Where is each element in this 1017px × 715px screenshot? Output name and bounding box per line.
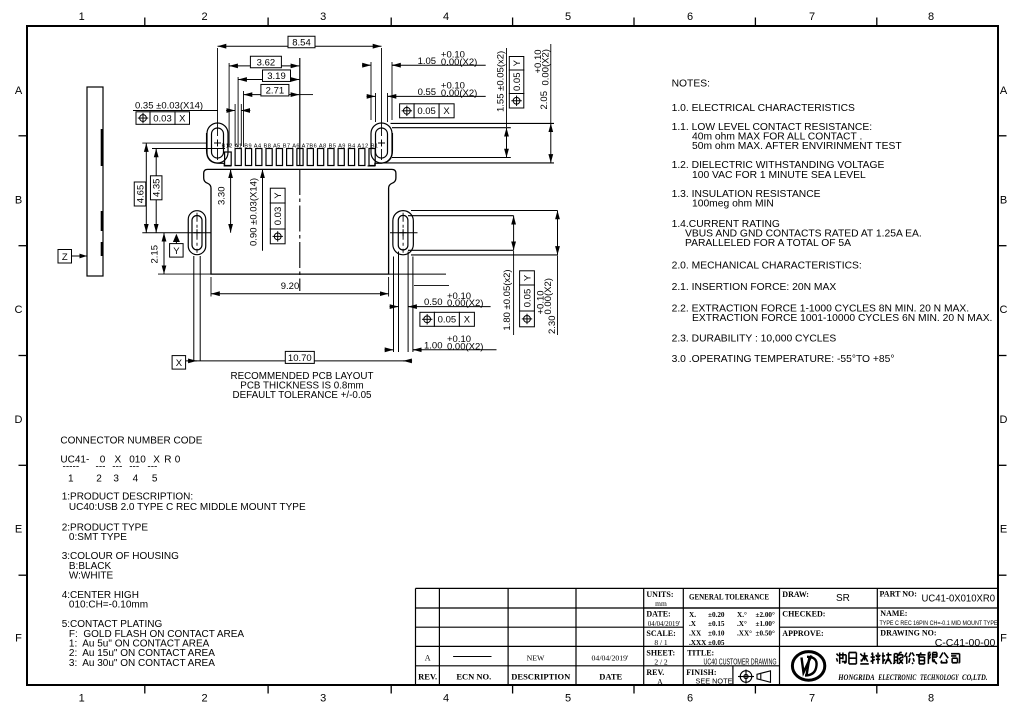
- dim 1.05: [362, 64, 371, 66]
- revision table header: [418, 672, 622, 682]
- top-right oval land contour: [368, 133, 393, 166]
- third angle projection symbol: [738, 670, 771, 684]
- svg-text:0.00(X2): 0.00(X2): [447, 298, 483, 309]
- FCF position 0.05 Y (vertical): [509, 57, 524, 71]
- svg-text:D: D: [1000, 414, 1008, 426]
- svg-text:3: Au 30u" ON CONTACT AREA: 3: Au 30u" ON CONTACT AREA: [69, 658, 215, 669]
- svg-text:0.00(X2): 0.00(X2): [441, 88, 477, 99]
- svg-text:3.62: 3.62: [257, 57, 276, 68]
- top-left oval land contour: [207, 133, 232, 166]
- svg-text:0: 0: [175, 455, 181, 466]
- svg-text:Y: Y: [522, 274, 533, 281]
- svg-text:4: 4: [443, 11, 449, 23]
- svg-text:6: 6: [687, 11, 693, 23]
- svg-text:1: 1: [79, 11, 85, 23]
- svg-text:2.05: 2.05: [539, 91, 550, 110]
- svg-text:2 / 2: 2 / 2: [654, 657, 668, 666]
- title block grid: [416, 588, 999, 685]
- svg-text:---: ---: [112, 462, 122, 473]
- svg-text:B: B: [15, 195, 22, 207]
- svg-text:7: 7: [809, 11, 815, 23]
- svg-text:0.03: 0.03: [273, 207, 284, 226]
- svg-text:-----: -----: [63, 462, 80, 473]
- svg-text:---: ---: [147, 462, 157, 473]
- dim 10.70: [186, 360, 412, 362]
- svg-text:X.: X.: [689, 611, 696, 619]
- svg-text:0.50: 0.50: [424, 297, 443, 308]
- top-right oval slot: [371, 123, 392, 163]
- svg-text:1: 1: [68, 474, 74, 485]
- svg-text:2.1. INSERTION FORCE: 20N MAX: 2.1. INSERTION FORCE: 20N MAX: [672, 282, 837, 293]
- connector body outline: [204, 169, 396, 274]
- svg-text:---: ---: [129, 462, 139, 473]
- svg-text:4.35: 4.35: [152, 179, 163, 198]
- svg-text:0.05: 0.05: [522, 289, 533, 308]
- svg-text:1.00: 1.00: [424, 340, 443, 351]
- mid-right slot extension column: [393, 257, 395, 353]
- svg-text:F: F: [1000, 633, 1007, 645]
- svg-text:0.00(X2): 0.00(X2): [447, 341, 483, 352]
- dim 4.65: [145, 143, 147, 233]
- svg-text:APPROVE:: APPROVE:: [782, 629, 823, 638]
- svg-text:CHECKED:: CHECKED:: [782, 610, 825, 619]
- svg-text:7: 7: [809, 693, 815, 705]
- svg-text:EXTRACTION FORCE 1001-10000 CY: EXTRACTION FORCE 1001-10000 CYCLES 6N MI…: [692, 313, 992, 324]
- svg-text:X: X: [464, 315, 471, 326]
- svg-text:UC40 CUSTOMER DRAWING: UC40 CUSTOMER DRAWING: [704, 658, 777, 667]
- svg-text:X.°: X.°: [737, 611, 747, 619]
- svg-text:2.15: 2.15: [150, 245, 161, 264]
- svg-text:±0.20: ±0.20: [708, 611, 725, 619]
- svg-text:PARALLELED FOR A TOTAL OF 5A: PARALLELED FOR A TOTAL OF 5A: [685, 238, 851, 249]
- svg-text:B: B: [1000, 195, 1007, 207]
- svg-text:Z: Z: [62, 252, 68, 263]
- svg-text:8 / 1: 8 / 1: [654, 638, 668, 647]
- svg-text:100meg ohm MIN: 100meg ohm MIN: [692, 199, 774, 210]
- svg-text:TITLE:: TITLE:: [687, 649, 714, 658]
- FCF position 0.03 X: [136, 112, 150, 125]
- svg-text:50m ohm MAX. AFTER ENVIRINMENT: 50m ohm MAX. AFTER ENVIRINMENT TEST: [692, 141, 902, 152]
- dim 1.55: [506, 128, 508, 158]
- svg-text:0.00(X2): 0.00(X2): [543, 278, 554, 314]
- dim 8.54 extension lines: [217, 48, 219, 136]
- svg-text:2: 2: [96, 474, 102, 485]
- svg-text:1:PRODUCT DESCRIPTION:: 1:PRODUCT DESCRIPTION:: [62, 492, 194, 503]
- svg-text:---: ---: [96, 462, 106, 473]
- svg-text:.XX°: .XX°: [737, 630, 752, 638]
- vertical centerline: [299, 58, 301, 166]
- dim 2.71: [244, 94, 300, 96]
- svg-text:DATE: DATE: [599, 672, 622, 682]
- svg-text:PART NO:: PART NO:: [880, 590, 917, 599]
- svg-text:C: C: [15, 304, 23, 316]
- svg-text:SR: SR: [836, 593, 850, 604]
- dim 0.90 (X14) leader: [262, 169, 264, 251]
- svg-text:UC41-0X010XR0: UC41-0X010XR0: [922, 594, 996, 605]
- svg-text:3.0 .OPERATING TEMPERATURE: -5: 3.0 .OPERATING TEMPERATURE: -55°TO +85°: [672, 354, 895, 365]
- svg-text:DRAWING NO:: DRAWING NO:: [880, 629, 936, 638]
- svg-text:Y: Y: [512, 59, 523, 66]
- dim 3.62: [229, 65, 299, 67]
- dim 2.30: [557, 211, 559, 255]
- svg-text:5: 5: [565, 11, 571, 23]
- svg-text:0.03: 0.03: [153, 113, 172, 124]
- svg-text:.XXX: .XXX: [689, 639, 707, 647]
- svg-text:mm: mm: [655, 599, 667, 608]
- datum Z leader: [72, 255, 88, 257]
- svg-text:C: C: [1000, 304, 1008, 316]
- mid-left oval centerline (datum Y line): [142, 232, 211, 234]
- svg-text:UC40:USB 2.0 TYPE C REC MIDDLE: UC40:USB 2.0 TYPE C REC MIDDLE MOUNT TYP…: [69, 502, 306, 513]
- datum X box: [172, 356, 186, 370]
- svg-text:±2.00°: ±2.00°: [756, 611, 776, 619]
- FCF position 0.05 X (top right): [400, 104, 415, 118]
- svg-text:0.35 ±0.03(X14): 0.35 ±0.03(X14): [135, 101, 203, 112]
- svg-text:9.20: 9.20: [281, 281, 300, 292]
- dim 2.15: [163, 233, 165, 274]
- svg-text:3.19: 3.19: [267, 71, 286, 82]
- svg-text:E: E: [15, 524, 22, 536]
- FCF position 0.03 Y (vertical): [270, 188, 285, 203]
- dim 1.05 extension lines: [370, 62, 372, 120]
- svg-text:UNITS:: UNITS:: [646, 590, 673, 599]
- svg-text:04/04/2019': 04/04/2019': [592, 654, 630, 663]
- svg-text:2: 2: [201, 11, 207, 23]
- svg-text:REV.: REV.: [418, 672, 437, 682]
- connector number code block: [60, 436, 306, 669]
- svg-text:3.30: 3.30: [217, 187, 228, 206]
- datum Z box: [58, 250, 72, 264]
- svg-text:NAME:: NAME:: [880, 609, 907, 618]
- svg-text:SCALE:: SCALE:: [646, 629, 675, 638]
- dim 3.19 extension line: [237, 77, 239, 147]
- svg-text:TYPE C REC 16PIN CH=-0.1 MID M: TYPE C REC 16PIN CH=-0.1 MID MOUNT TYPE: [880, 620, 998, 627]
- svg-text:±0.10: ±0.10: [708, 630, 725, 638]
- svg-text:3: 3: [320, 693, 326, 705]
- svg-text:±0.50°: ±0.50°: [756, 630, 776, 638]
- svg-text:ECN NO.: ECN NO.: [456, 672, 491, 682]
- svg-text:0.55: 0.55: [418, 87, 437, 98]
- svg-text:10.70: 10.70: [288, 353, 312, 364]
- svg-text:8.54: 8.54: [292, 37, 311, 48]
- FCF position 0.05 X (bottom right): [420, 312, 435, 326]
- svg-text:1.05: 1.05: [418, 56, 437, 67]
- svg-text:C-C41-00-00: C-C41-00-00: [935, 637, 996, 649]
- svg-text:A: A: [657, 677, 663, 686]
- svg-text:HONGRIDAELECTRONICTECHNOLOGYCO: HONGRIDAELECTRONICTECHNOLOGYCO,LTD.: [837, 673, 987, 682]
- svg-text:DEFAULT TOLERANCE +/-0.05: DEFAULT TOLERANCE +/-0.05: [233, 390, 372, 401]
- company logo: [792, 652, 824, 681]
- top-right solder bar: [391, 122, 555, 124]
- svg-text:010:CH=-0.10mm: 010:CH=-0.10mm: [69, 600, 148, 611]
- svg-text:SEE NOTE: SEE NOTE: [696, 677, 733, 686]
- svg-text:2: 2: [201, 693, 207, 705]
- svg-text:A: A: [15, 85, 23, 97]
- mid-right oval slot: [393, 211, 414, 255]
- dim 0.35 arrows: [226, 110, 235, 112]
- svg-text:A: A: [425, 654, 431, 663]
- svg-text:0.05: 0.05: [512, 73, 523, 92]
- PCB layout note text: [231, 371, 374, 401]
- svg-text:8: 8: [928, 693, 934, 705]
- svg-text:REV.: REV.: [646, 668, 664, 677]
- svg-text:X: X: [443, 106, 450, 117]
- svg-text:2.3. DURABILITY : 10,000 CYCLE: 2.3. DURABILITY : 10,000 CYCLES: [672, 334, 837, 345]
- dim 3.62 extension line: [228, 63, 230, 147]
- dim 4.35 extension line: [152, 148, 225, 150]
- dim 2.71 extension line: [243, 91, 245, 147]
- extension line above 0.50: [414, 285, 449, 287]
- svg-text:3: 3: [113, 474, 119, 485]
- dim 0.50: [390, 306, 399, 308]
- svg-text:2.30: 2.30: [547, 316, 558, 335]
- svg-text:X: X: [176, 358, 183, 369]
- dim 0.55 extension lines: [375, 93, 377, 122]
- svg-text:3: 3: [320, 11, 326, 23]
- svg-text:NEW: NEW: [527, 654, 545, 663]
- svg-text:DESCRIPTION: DESCRIPTION: [511, 672, 571, 682]
- svg-text:±1.00°: ±1.00°: [756, 620, 776, 628]
- svg-text:0:SMT TYPE: 0:SMT TYPE: [69, 532, 127, 543]
- dim 3.19: [238, 79, 299, 81]
- svg-text:DRAW:: DRAW:: [782, 590, 809, 599]
- svg-text:Y: Y: [173, 246, 180, 257]
- svg-text:.X: .X: [689, 620, 697, 628]
- svg-text:100 VAC FOR 1 MINUTE SEA LEVEL: 100 VAC FOR 1 MINUTE SEA LEVEL: [692, 170, 866, 181]
- svg-text:X: X: [179, 113, 186, 124]
- svg-text:2.0. MECHANICAL CHARACTERISTIC: 2.0. MECHANICAL CHARACTERISTICS:: [672, 260, 862, 271]
- svg-text:1: 1: [79, 693, 85, 705]
- svg-text:5: 5: [152, 474, 158, 485]
- svg-text:DATE:: DATE:: [646, 610, 670, 619]
- svg-text:.X°: .X°: [737, 620, 747, 628]
- svg-text:0.05: 0.05: [438, 315, 457, 326]
- svg-text:0.00(X2): 0.00(X2): [441, 57, 477, 68]
- dim 4.65 extension line: [142, 142, 207, 144]
- svg-text:±0.15: ±0.15: [708, 620, 725, 628]
- svg-text:W:WHITE: W:WHITE: [69, 571, 114, 582]
- draw/checked/approve cells: [782, 590, 825, 638]
- svg-text:1.0. ELECTRICAL CHARACTERISTIC: 1.0. ELECTRICAL CHARACTERISTICS: [672, 103, 855, 114]
- revision row: [425, 654, 629, 663]
- svg-text:04/04/2019': 04/04/2019': [648, 621, 680, 628]
- side view contact marks: [101, 129, 104, 256]
- dim 0.55: [367, 95, 376, 97]
- dim 2.05: [550, 123, 552, 162]
- svg-text:4: 4: [133, 474, 139, 485]
- svg-text:E: E: [1000, 524, 1007, 536]
- svg-text:1.80 ±0.05(x2): 1.80 ±0.05(x2): [502, 269, 513, 330]
- svg-text:1.55 ±0.05(x2): 1.55 ±0.05(x2): [496, 51, 507, 112]
- dim 1.80: [513, 216, 515, 251]
- dim 3.30: [230, 169, 232, 232]
- svg-text:6: 6: [687, 693, 693, 705]
- svg-text:4: 4: [443, 693, 449, 705]
- mid-left slot extension lines: [193, 256, 195, 361]
- body bottom extension to right: [389, 273, 446, 275]
- svg-text:0.00(X2): 0.00(X2): [540, 49, 551, 85]
- svg-text:.XX: .XX: [689, 630, 702, 638]
- svg-text:Y: Y: [273, 192, 284, 199]
- svg-text:8: 8: [928, 11, 934, 23]
- svg-text:2.71: 2.71: [266, 86, 285, 97]
- svg-text:0.05: 0.05: [417, 106, 436, 117]
- dim 8.54: [218, 45, 382, 47]
- mid-right oval centerline: [390, 232, 418, 234]
- mid-right solder bar: [411, 210, 558, 212]
- svg-text:CONNECTOR NUMBER CODE: CONNECTOR NUMBER CODE: [60, 436, 202, 447]
- svg-text:A: A: [1000, 85, 1008, 97]
- company name (CJK): [837, 653, 960, 664]
- svg-text:SHEET:: SHEET:: [646, 649, 675, 658]
- mid-left oval slot: [188, 211, 206, 255]
- top-left oval slot: [207, 123, 228, 163]
- units/date/scale/sheet/rev cells: [646, 590, 675, 677]
- svg-text:4.65: 4.65: [135, 185, 146, 204]
- side view outline: [87, 87, 103, 276]
- dim 4.35: [155, 149, 157, 233]
- svg-text:NOTES:: NOTES:: [672, 78, 710, 89]
- dim 9.20 extension lines: [210, 277, 212, 297]
- svg-text:5: 5: [565, 693, 571, 705]
- svg-text:D: D: [15, 414, 23, 426]
- svg-text:R: R: [164, 455, 171, 466]
- FCF position 0.05 Y (vertical, lower): [520, 271, 535, 285]
- svg-text:0.90 ±0.03(X14): 0.90 ±0.03(X14): [249, 178, 260, 246]
- dim 1.00: [385, 349, 394, 351]
- pad row (14 contact pads): [225, 149, 376, 166]
- svg-text:±0.05: ±0.05: [708, 639, 725, 647]
- dim 9.20: [211, 293, 389, 295]
- notes text block: [672, 78, 993, 365]
- datum Y triangle and box: [173, 234, 180, 242]
- svg-text:GENERAL TOLERANCE: GENERAL TOLERANCE: [689, 593, 769, 602]
- svg-text:F: F: [15, 633, 22, 645]
- dim 0.35 extension lines: [234, 104, 236, 146]
